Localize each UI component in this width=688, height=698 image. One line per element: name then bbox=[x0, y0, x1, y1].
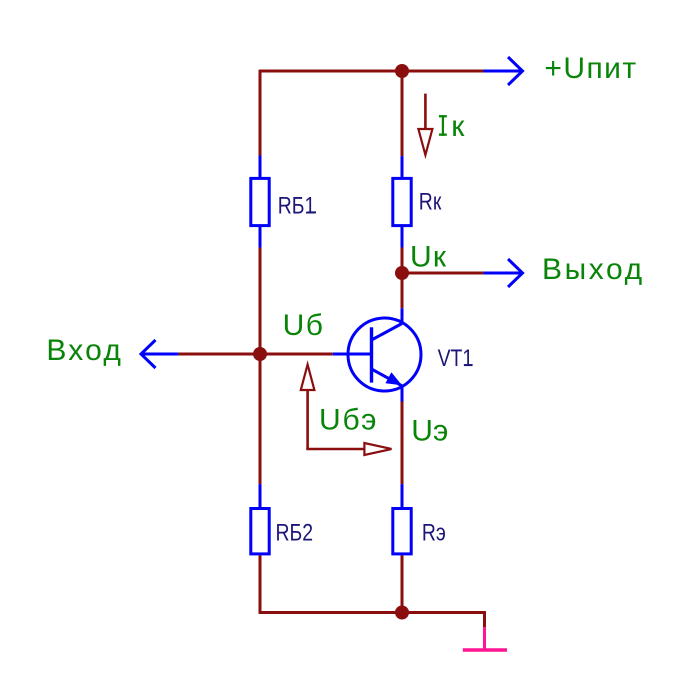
wire left column lower bbox=[259, 555, 262, 614]
node output junction bbox=[395, 266, 409, 280]
svg-text:Rк: Rк bbox=[419, 187, 442, 214]
wire top rail bbox=[260, 70, 484, 73]
svg-text:Uб: Uб bbox=[283, 309, 325, 342]
wire input rail bbox=[178, 353, 260, 356]
svg-text:Uэ: Uэ bbox=[411, 415, 448, 448]
node base junction bbox=[253, 347, 267, 361]
node bottom junction bbox=[395, 606, 409, 620]
resistor Re bbox=[393, 484, 446, 554]
arrow Ik (current arrow) bbox=[418, 94, 432, 155]
label Ik bbox=[439, 110, 465, 143]
wire output rail bbox=[402, 272, 483, 275]
wire left column middle bbox=[259, 246, 262, 484]
wire left column upper bbox=[259, 70, 262, 156]
wire collector to output node bbox=[401, 246, 404, 273]
arrow Vyhod bbox=[483, 259, 522, 287]
svg-text:VT1: VT1 bbox=[438, 344, 474, 371]
svg-text:RБ2: RБ2 bbox=[276, 518, 314, 545]
wire ground stub bbox=[483, 611, 486, 627]
wire output node to transistor bbox=[401, 273, 404, 308]
wire base rail bbox=[260, 353, 333, 356]
resistor RB2 bbox=[251, 484, 313, 554]
svg-text:к: к bbox=[451, 110, 465, 143]
resistor RB1 bbox=[251, 156, 316, 248]
svg-text:Uк: Uк bbox=[410, 240, 447, 273]
svg-text:Rэ: Rэ bbox=[422, 518, 446, 545]
resistor Rk bbox=[393, 156, 442, 247]
node top junction bbox=[395, 64, 409, 78]
transistor VT1 bbox=[333, 308, 473, 401]
wire bottom rail bbox=[259, 611, 486, 614]
svg-text:RБ1: RБ1 bbox=[278, 191, 316, 218]
svg-text:Uбэ: Uбэ bbox=[319, 404, 378, 437]
svg-text:+Uпит: +Uпит bbox=[544, 52, 637, 85]
wire below Re bbox=[401, 555, 404, 612]
arrow Ube (up arrow) bbox=[301, 365, 392, 456]
arrow +Upit bbox=[484, 57, 523, 85]
wire collector upper bbox=[401, 71, 404, 156]
svg-text:Выход: Выход bbox=[542, 253, 645, 286]
wire emitter bbox=[401, 402, 404, 485]
ground bbox=[463, 627, 507, 650]
svg-text:Вход: Вход bbox=[46, 334, 123, 367]
arrow Vhod bbox=[141, 340, 178, 368]
